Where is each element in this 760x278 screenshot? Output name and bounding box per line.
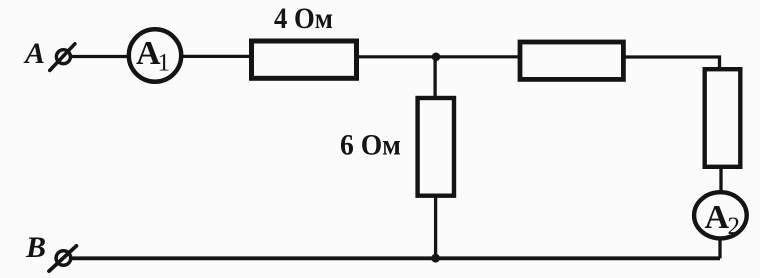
wire R4 to ammeter A2 [719, 166, 722, 192]
resistor R3 (top right) [520, 42, 623, 79]
wire R3 right then down to R4 [625, 57, 720, 68]
resistor R4 (right vertical) [705, 69, 741, 167]
svg-text:6 Ом: 6 Ом [340, 129, 401, 162]
svg-text:A: A [23, 37, 45, 70]
svg-text:4 Ом: 4 Ом [274, 2, 333, 35]
wire R1 to R3 [358, 55, 519, 58]
wire node down to R2 [433, 57, 436, 98]
node junction top [432, 53, 441, 62]
wire R2 down to bottom bus [434, 195, 437, 258]
svg-text:2: 2 [728, 213, 741, 240]
svg-text:A: A [705, 199, 730, 236]
wire A2 down to bottom bus [718, 237, 721, 258]
terminal A [50, 44, 75, 71]
ammeter A1 [129, 29, 181, 81]
svg-text:1: 1 [158, 50, 171, 77]
wire A1 to resistor R1 [182, 55, 252, 58]
ammeter A2 [694, 192, 747, 240]
resistor R1 [252, 41, 357, 78]
node junction bottom [431, 254, 440, 263]
resistor R2 (vertical) [418, 98, 454, 196]
bottom bus wire [71, 256, 720, 260]
svg-text:B: B [25, 231, 46, 264]
wire terminal A to ammeter A1 [71, 55, 130, 58]
terminal B [49, 246, 76, 271]
